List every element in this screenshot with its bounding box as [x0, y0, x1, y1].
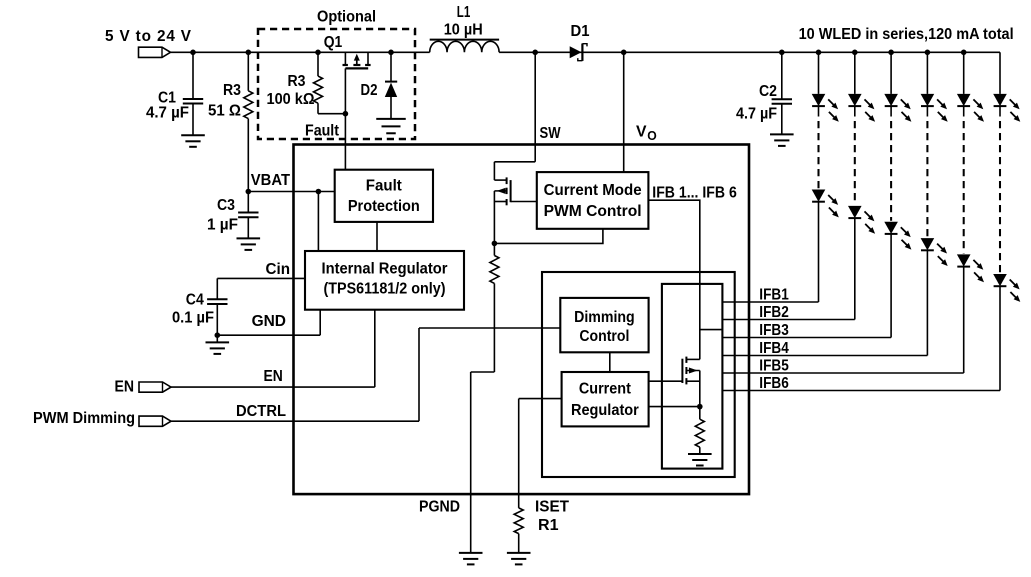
svg-text:O: O	[647, 129, 657, 143]
svg-text:PWM Dimming: PWM Dimming	[33, 410, 135, 427]
svg-text:Internal Regulator: Internal Regulator	[322, 261, 448, 278]
svg-text:IFB 1... IFB 6: IFB 1... IFB 6	[652, 185, 737, 202]
svg-text:VBAT: VBAT	[251, 172, 291, 189]
svg-text:Control: Control	[579, 328, 629, 345]
svg-text:C2: C2	[759, 83, 777, 100]
svg-text:ISET: ISET	[535, 499, 570, 516]
svg-text:Regulator: Regulator	[571, 402, 639, 419]
svg-text:0.1 µF: 0.1 µF	[172, 310, 214, 327]
svg-text:C3: C3	[217, 197, 235, 214]
svg-text:IFB2: IFB2	[759, 304, 789, 321]
svg-text:10 µH: 10 µH	[444, 22, 483, 39]
svg-text:SW: SW	[540, 125, 561, 142]
svg-text:PWM Control: PWM Control	[544, 203, 642, 220]
svg-text:IFB5: IFB5	[759, 358, 789, 375]
svg-text:D1: D1	[571, 23, 590, 40]
svg-text:Current: Current	[579, 381, 631, 398]
svg-text:(TPS61181/2 only): (TPS61181/2 only)	[324, 281, 446, 298]
svg-text:Fault: Fault	[305, 123, 339, 140]
svg-text:C4: C4	[186, 292, 204, 309]
svg-text:IFB1: IFB1	[759, 287, 789, 304]
svg-text:1 µF: 1 µF	[207, 217, 238, 234]
svg-text:51 Ω: 51 Ω	[208, 103, 241, 120]
svg-text:5 V to 24 V: 5 V to 24 V	[105, 28, 192, 45]
svg-text:Fault: Fault	[366, 178, 402, 195]
svg-text:R1: R1	[538, 517, 559, 534]
svg-text:Current Mode: Current Mode	[544, 182, 642, 199]
svg-text:IFB3: IFB3	[759, 322, 789, 339]
svg-text:R3: R3	[223, 82, 241, 99]
svg-text:4.7 µF: 4.7 µF	[736, 106, 777, 123]
svg-text:EN: EN	[115, 379, 135, 396]
svg-text:EN: EN	[264, 368, 283, 385]
svg-text:Protection: Protection	[348, 198, 420, 215]
svg-text:GND: GND	[252, 313, 286, 330]
svg-text:DCTRL: DCTRL	[236, 403, 286, 420]
svg-text:Dimming: Dimming	[574, 309, 635, 326]
svg-text:R3: R3	[288, 73, 306, 90]
svg-text:PGND: PGND	[419, 499, 460, 516]
svg-text:Cin: Cin	[266, 261, 291, 278]
svg-text:4.7 µF: 4.7 µF	[146, 105, 189, 122]
svg-text:L1: L1	[457, 4, 471, 21]
svg-text:D2: D2	[361, 82, 378, 99]
svg-text:100 kΩ: 100 kΩ	[267, 91, 315, 108]
svg-text:Optional: Optional	[317, 9, 376, 26]
svg-text:IFB4: IFB4	[759, 340, 789, 357]
svg-text:V: V	[636, 124, 647, 141]
svg-text:Q1: Q1	[324, 34, 343, 51]
svg-text:IFB6: IFB6	[759, 375, 789, 392]
svg-text:10 WLED in series,120 mA total: 10 WLED in series,120 mA total	[799, 26, 1014, 43]
